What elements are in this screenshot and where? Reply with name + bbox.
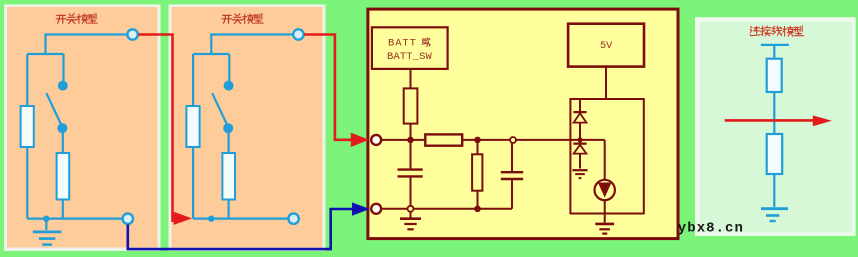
svg-text:BATT_SW: BATT_SW: [387, 51, 433, 63]
svg-text:5V: 5V: [600, 41, 613, 52]
svg-text:BATT: BATT: [388, 38, 417, 50]
svg-text:ybx8.cn: ybx8.cn: [678, 221, 744, 237]
